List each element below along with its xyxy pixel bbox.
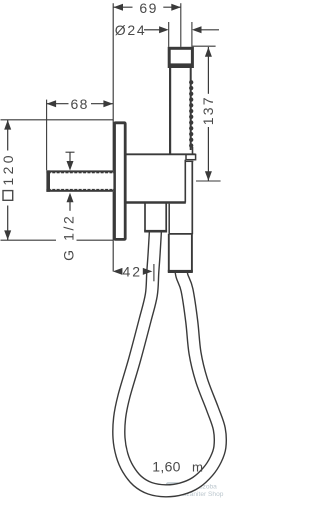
- svg-text:68: 68: [71, 96, 89, 112]
- svg-text:m: m: [192, 459, 203, 474]
- svg-text:Ø24: Ø24: [115, 22, 147, 38]
- svg-text:69: 69: [139, 0, 157, 16]
- svg-text:137: 137: [200, 95, 216, 125]
- svg-text:G 1/2: G 1/2: [60, 214, 76, 261]
- svg-text:42: 42: [123, 264, 143, 280]
- svg-text:120: 120: [0, 152, 16, 186]
- svg-text:1,60: 1,60: [152, 458, 180, 474]
